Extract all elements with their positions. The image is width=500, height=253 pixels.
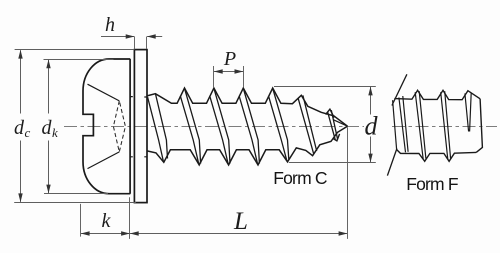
hidden recess diamond (dashed) [113,101,125,152]
dimension h lines [101,36,162,38]
head bearing face [129,59,131,194]
recess cone line top [88,84,120,101]
thread helix band 3 [239,88,259,163]
last crest helix at tip [334,120,348,126]
k extension lines [81,197,130,239]
form F bottom silhouette [397,150,477,162]
d arrows [368,87,372,163]
svg-text:k: k [52,125,58,140]
head face bearing ticks [130,97,133,157]
thread helix band 4 [269,88,289,161]
L arrows [130,231,348,235]
d_k dimension line [48,60,50,194]
small bottom thread peak near tip [333,134,340,141]
d_c extension lines [14,50,136,203]
d_k arrows [46,60,50,194]
d_c dimension line [20,50,22,202]
svg-text:d: d [14,117,25,139]
d dimension line [370,87,372,163]
k dimension line [81,233,130,235]
P extension lines [214,66,244,87]
L dimension line [130,233,348,235]
form F break line bottom [387,149,397,176]
form F right face [476,99,482,153]
svg-text:L: L [233,208,248,235]
d_k extension lines [44,60,114,194]
d extension lines right [274,87,376,163]
thread top silhouette [147,88,348,126]
center line main view [64,126,364,128]
svg-text:d: d [365,112,379,141]
svg-text:Form F: Form F [406,174,458,194]
thread bottom silhouette [147,126,348,165]
form F helix band 2 [441,91,451,159]
form F left edge [393,100,397,149]
thread helix band 1 [180,88,200,163]
thread helix band 6 [328,110,338,140]
d_c arrows [18,50,22,202]
thread helix band 5 [298,95,317,153]
svg-text:k: k [102,210,112,232]
screw head outline [83,59,130,194]
k arrows [81,231,130,235]
washer inner hole ticks [144,97,147,157]
h arrows [126,34,156,38]
svg-text:d: d [42,117,53,139]
svg-text:h: h [105,14,115,36]
thread helix band 0 [148,94,168,162]
thread helix band 2 [210,88,230,163]
P arrows [214,69,243,73]
form F helix band 1 [415,91,426,159]
small top thread peak near tip [326,109,335,117]
form F thread runout V [465,93,471,132]
form F break line top [392,74,407,105]
h extension lines [135,37,147,50]
svg-text:P: P [223,48,236,70]
captive washer [134,50,147,203]
L extension line [347,127,349,238]
form F helix band 0 [399,96,408,152]
recess cone line bottom [88,152,120,169]
P dimension line [214,71,243,73]
svg-text:c: c [25,125,31,140]
center line form F [392,126,497,128]
svg-text:Form C: Form C [273,168,327,188]
form F top silhouette [394,90,480,99]
